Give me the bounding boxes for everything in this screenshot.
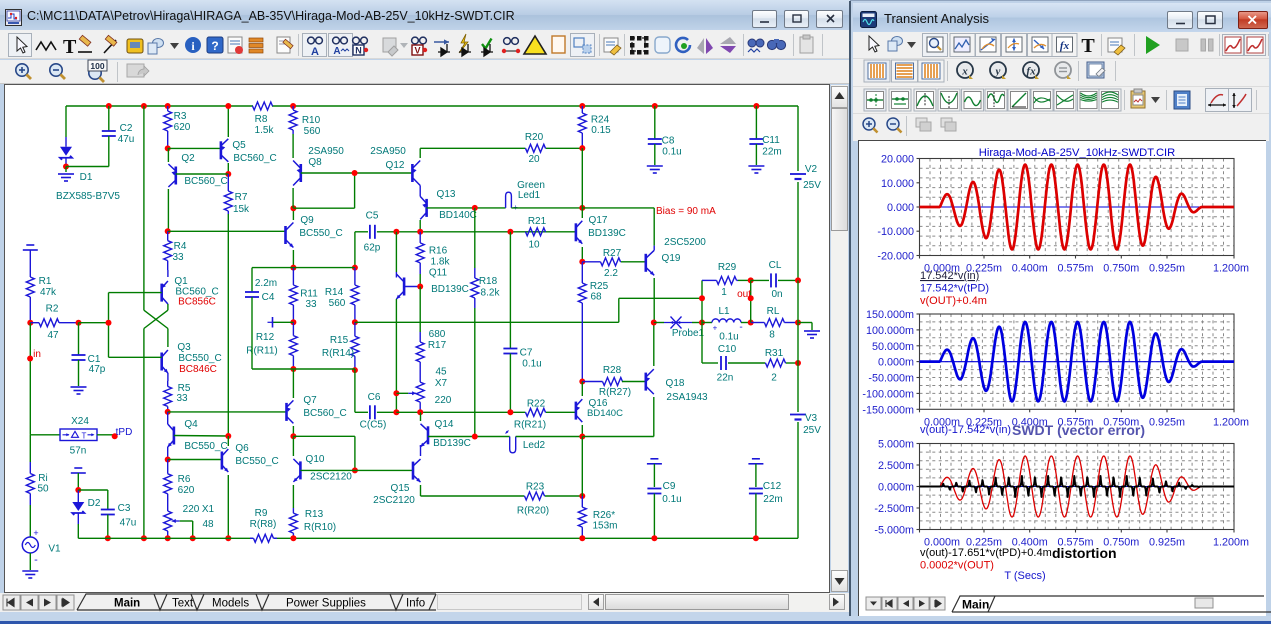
wire Q1 base <box>109 292 162 294</box>
wire R5 to Q7 base <box>168 411 287 413</box>
resistor R20 <box>524 147 527 149</box>
resistor R9 <box>250 537 254 539</box>
inductor L1 <box>702 322 712 324</box>
wire bias row <box>582 207 654 209</box>
resistor R25 <box>581 262 583 283</box>
vertical scrollbar <box>831 85 848 592</box>
svg-text:0.000: 0.000 <box>887 202 914 214</box>
svg-text:0.575m: 0.575m <box>1057 263 1093 275</box>
horizontal scrollbar <box>437 594 582 610</box>
svg-text:0.925m: 0.925m <box>1149 416 1185 428</box>
node R4 top <box>165 228 171 234</box>
svg-text:17.542*v(tPD): 17.542*v(tPD) <box>920 283 989 295</box>
resistor RL <box>751 322 765 324</box>
feedback tap stub <box>273 321 294 323</box>
ground below V1 <box>22 570 38 572</box>
svg-text:2.500m: 2.500m <box>878 460 914 472</box>
wire row y=412 <box>396 411 420 413</box>
svg-text:0.400m: 0.400m <box>1012 263 1048 275</box>
capacitor C11 <box>753 103 759 109</box>
resistor R31 <box>764 362 767 364</box>
capacitor C10 branch <box>701 323 703 364</box>
resistor R8 <box>252 105 255 107</box>
wire right rail low / V3 <box>797 280 799 412</box>
wire y=148 to R20/R24 <box>420 147 525 149</box>
svg-text:-2.500m: -2.500m <box>874 503 914 515</box>
wire Q8-Q12 bases <box>301 172 413 174</box>
svg-text:0.000m: 0.000m <box>878 482 914 494</box>
resistor R14 <box>354 268 356 285</box>
svg-text:Main: Main <box>962 598 989 612</box>
battery V2 <box>790 173 806 175</box>
svg-text:10.000: 10.000 <box>881 178 914 190</box>
resistor R29 <box>702 279 717 281</box>
transistor Q19 <box>644 254 647 272</box>
node tPD <box>97 434 115 436</box>
wire left drop to D1 <box>65 106 67 137</box>
top screen strip <box>0 0 1271 3</box>
resistor R3 <box>165 103 171 109</box>
capacitor C3 <box>78 489 108 491</box>
probe Probe1 <box>664 322 692 324</box>
svg-text:T (Secs): T (Secs) <box>1004 570 1045 582</box>
svg-text:-100.000m: -100.000m <box>862 388 914 400</box>
svg-text:1.200m: 1.200m <box>1213 416 1249 428</box>
bottom frame strips <box>849 616 1271 624</box>
node out <box>750 280 752 322</box>
node in <box>29 323 31 435</box>
resistor R26 <box>581 496 583 507</box>
wire R12/R15 bottoms row <box>293 368 355 370</box>
svg-text:17.542*v(in): 17.542*v(in) <box>920 270 979 282</box>
wire to right ground <box>798 322 812 324</box>
wire right rail <box>797 106 799 171</box>
wire bottom rail <box>77 524 79 538</box>
svg-text:50.000m: 50.000m <box>872 341 914 353</box>
resistor R7 <box>227 174 229 191</box>
resistor R21 <box>524 231 527 233</box>
resistor R1 <box>29 250 31 266</box>
transistor Q10 <box>299 461 302 479</box>
transistor Q15 <box>412 462 415 480</box>
ground below C1 <box>71 386 87 388</box>
wire Q18 collector row <box>582 436 654 438</box>
resistor R16 <box>419 232 421 243</box>
ground above R1 <box>26 244 34 246</box>
wire to Q9 base <box>168 230 286 232</box>
svg-text:Hiraga-Mod-AB-25V_10kHz-SWDT.C: Hiraga-Mod-AB-25V_10kHz-SWDT.CIR <box>979 147 1175 159</box>
transistor Q16 <box>575 402 578 420</box>
wire R29 branch <box>701 280 703 322</box>
transistor Q9 <box>284 226 287 244</box>
svg-text:0.000m: 0.000m <box>878 357 914 369</box>
output row: Probe1 / L1 / RL <box>651 320 657 326</box>
transistor Q2 <box>175 167 178 185</box>
wire Q13 base / LED row <box>427 207 506 209</box>
svg-text:5.000m: 5.000m <box>878 439 914 451</box>
LED Led1 <box>506 192 512 208</box>
bottom frame <box>0 612 850 624</box>
resistor R24 <box>579 103 585 109</box>
resistor R10 <box>290 103 296 109</box>
transistor Q3 <box>160 353 163 371</box>
svg-text:20.000: 20.000 <box>881 154 914 166</box>
LED Led2 <box>510 437 516 453</box>
capacitor C7 <box>509 232 511 349</box>
wire Q7c jog to bases <box>293 435 355 437</box>
capacitor C4 box <box>252 267 293 269</box>
capacitor C5 <box>355 231 368 233</box>
transistor Q7 <box>285 403 288 421</box>
transistor Q5 <box>220 141 223 159</box>
transistor Q8 <box>299 164 302 182</box>
right tab bar <box>859 592 1271 616</box>
resistor R23 <box>523 495 526 497</box>
transistor Q6 <box>221 452 224 470</box>
plot canvas <box>858 140 1266 617</box>
transistor Q12 <box>411 164 414 182</box>
resistor R15 <box>354 322 356 336</box>
svg-text:1.200m: 1.200m <box>1213 263 1249 275</box>
transistor Q17 <box>575 223 578 241</box>
wire row y=232 <box>396 231 576 233</box>
svg-text:-150.000m: -150.000m <box>862 404 914 416</box>
resistor R2 <box>30 322 39 324</box>
wire R3 to Q5 base <box>168 147 221 149</box>
capacitor C12 <box>752 458 760 460</box>
svg-text:v(out)-17.651*v(tPD)+0.4m: v(out)-17.651*v(tPD)+0.4m <box>920 547 1052 559</box>
svg-text:0.925m: 0.925m <box>1149 537 1185 549</box>
svg-text:-5.000m: -5.000m <box>874 525 914 537</box>
transistor Q11 <box>419 274 421 287</box>
potentiometer X1 <box>167 508 169 511</box>
toolbars <box>0 30 850 59</box>
resistor R17 <box>419 287 421 333</box>
potentiometer X7 <box>419 372 421 382</box>
resistor R11 <box>292 268 294 285</box>
svg-text:distortion: distortion <box>1052 545 1117 561</box>
wire Q6 base <box>168 459 222 461</box>
source V1 <box>29 505 31 537</box>
svg-text:SWDT (vector error): SWDT (vector error) <box>1012 422 1145 438</box>
capacitor C9 <box>650 458 658 460</box>
resistor Ri <box>29 435 31 462</box>
ground above D2 <box>74 467 82 469</box>
wire to input node column <box>79 322 109 324</box>
wire Q16 column down <box>581 437 583 497</box>
battery V3 <box>790 414 806 416</box>
svg-text:100.000m: 100.000m <box>866 325 914 337</box>
transistor Q13 <box>425 199 428 217</box>
svg-text:-20.000: -20.000 <box>877 251 914 263</box>
wire feedback row y=322 <box>355 321 619 323</box>
resistor R18 <box>474 208 476 268</box>
svg-text:v(OUT)+0.4m: v(OUT)+0.4m <box>920 295 987 307</box>
bus vertical <box>141 103 147 109</box>
wire Q11 column <box>395 232 397 272</box>
zener D2 <box>77 473 79 490</box>
resistor R27 <box>582 261 600 263</box>
resistor R5 <box>167 373 169 381</box>
svg-text:0.0002*v(OUT): 0.0002*v(OUT) <box>920 560 994 572</box>
capacitor C1 <box>78 323 80 355</box>
X cross-couple <box>167 304 169 310</box>
resistor R4 <box>167 231 169 240</box>
wire Q4 base <box>174 435 228 438</box>
transistor Q1 <box>167 270 169 277</box>
svg-text:-50.000m: -50.000m <box>868 373 914 385</box>
resistor R28 <box>582 381 602 383</box>
wire Q14 base row <box>428 436 510 438</box>
resistor R22 <box>524 411 527 413</box>
svg-text:150.000m: 150.000m <box>866 309 914 321</box>
transistor Q4 <box>173 427 176 445</box>
wire Q9e to R11/R14 tops <box>293 267 355 269</box>
resistor R13 <box>292 508 294 513</box>
wire C5 column <box>354 232 356 268</box>
wire Q3 base <box>109 356 162 358</box>
transistor Q14 <box>427 426 430 444</box>
schematic canvas <box>4 84 830 593</box>
svg-text:-10.000: -10.000 <box>877 226 914 238</box>
svg-text:0.750m: 0.750m <box>1103 263 1139 275</box>
tab bar <box>0 593 850 612</box>
zener D1 <box>60 147 72 156</box>
app icon <box>5 9 22 26</box>
capacitor C2 <box>106 103 112 109</box>
capacitor C8 <box>652 103 658 109</box>
capacitor CL <box>751 279 769 281</box>
resistor R12 <box>292 322 294 335</box>
capacitor C6 <box>355 411 368 413</box>
wire top rail <box>66 105 253 107</box>
resistor R6 <box>167 460 169 474</box>
svg-text:v(out)-17.542*v(in): v(out)-17.542*v(in) <box>920 424 1011 436</box>
titlebar buttons <box>752 10 777 28</box>
wire Q15 emitter row / R23 <box>421 495 525 497</box>
transistor Q18 <box>644 373 647 391</box>
ground below D1 <box>58 173 74 175</box>
svg-text:1.200m: 1.200m <box>1213 537 1249 549</box>
wire Q8 mirror box <box>293 207 354 209</box>
delay element X24 <box>30 434 60 436</box>
wire Q10-Q15 bases <box>300 469 413 471</box>
svg-text:0.925m: 0.925m <box>1149 263 1185 275</box>
